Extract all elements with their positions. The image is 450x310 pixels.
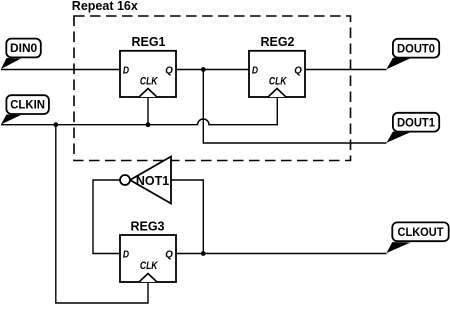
flip-flop REG2 (249, 35, 305, 97)
wire DIN0 to REG1.D (1, 69, 120, 71)
wire NOT1 output to REG3.D (93, 180, 120, 254)
wire CLKIN drop to REG3 clock (56, 125, 148, 303)
svg-text:CLK: CLK (140, 260, 159, 272)
net label DOUT1 (387, 113, 440, 143)
junction dot REG3.Q node (201, 251, 206, 256)
svg-text:REG2: REG2 (260, 35, 294, 49)
flip-flop REG3 (120, 219, 176, 282)
svg-text:REG3: REG3 (130, 219, 164, 233)
svg-text:Q: Q (294, 65, 302, 76)
net label CLKIN (1, 95, 49, 124)
junction dot REG1 clock (146, 122, 151, 127)
svg-text:Q: Q (165, 249, 173, 260)
svg-text:D: D (252, 65, 259, 76)
svg-text:CLK: CLK (140, 76, 159, 88)
wire CLKIN with hop to REG2 clock (1, 97, 277, 125)
wire REG3.Q to CLKOUT (176, 253, 387, 255)
junction dot CLKIN drop (53, 122, 58, 127)
net label DOUT0 (387, 39, 440, 70)
svg-text:Q: Q (165, 65, 173, 76)
svg-text:CLKOUT: CLKOUT (398, 227, 444, 239)
svg-text:Repeat 16x: Repeat 16x (72, 0, 138, 13)
wire REG1.Q branch down to DOUT1 (203, 70, 386, 144)
flip-flop REG1 (120, 35, 176, 97)
svg-text:CLKIN: CLKIN (10, 100, 45, 112)
svg-text:DIN0: DIN0 (10, 43, 37, 55)
svg-text:D: D (123, 249, 130, 260)
net label DIN0 (1, 39, 41, 69)
junction dot REG1.Q node (201, 67, 206, 72)
wire NOT1 input from REG3.Q branch (171, 180, 203, 254)
repeat boundary Repeat 16x (72, 0, 351, 161)
svg-text:DOUT1: DOUT1 (397, 117, 436, 129)
wire REG1 clock stem (147, 97, 149, 125)
svg-text:NOT1: NOT1 (136, 174, 169, 188)
svg-text:D: D (123, 65, 130, 76)
svg-text:CLK: CLK (269, 76, 288, 88)
net label CLKOUT (387, 222, 449, 253)
svg-text:REG1: REG1 (131, 35, 165, 49)
svg-text:DOUT0: DOUT0 (397, 43, 435, 55)
wire REG1.Q to REG2.D (176, 69, 249, 71)
wire REG2.Q to DOUT0 (305, 69, 387, 71)
inverter NOT1 (120, 157, 171, 204)
